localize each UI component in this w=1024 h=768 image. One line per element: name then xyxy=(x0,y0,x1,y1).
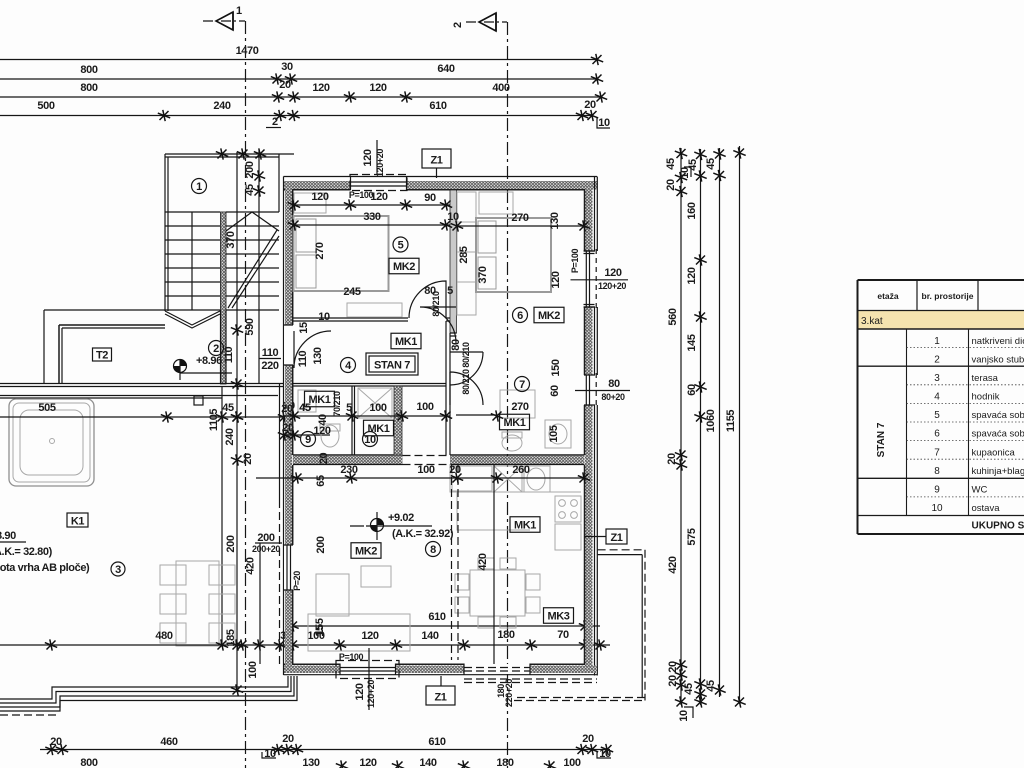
small square node xyxy=(194,396,203,405)
dashed interior lines living xyxy=(452,465,459,660)
bathroom fixtures xyxy=(500,390,571,451)
svg-text:640: 640 xyxy=(437,63,454,75)
K1 label xyxy=(67,513,88,528)
MK2 living xyxy=(351,543,381,559)
kitchen counter xyxy=(450,464,581,492)
svg-text:3: 3 xyxy=(934,373,940,384)
svg-text:45: 45 xyxy=(705,158,717,170)
bathroom dims xyxy=(456,401,529,415)
svg-text:20: 20 xyxy=(279,79,291,91)
room6 door arc xyxy=(420,307,456,343)
svg-text:45: 45 xyxy=(665,158,677,170)
svg-text:45: 45 xyxy=(683,683,695,695)
svg-text:spavaća soba: spavaća soba xyxy=(972,410,1024,421)
svg-text:80: 80 xyxy=(450,339,462,351)
room6 dims xyxy=(451,212,590,232)
svg-text:180: 180 xyxy=(497,629,514,641)
svg-text:120+20: 120+20 xyxy=(598,281,626,291)
svg-text:140: 140 xyxy=(419,757,436,768)
stair treads right run xyxy=(226,212,279,310)
svg-text:200+20: 200+20 xyxy=(252,544,280,554)
svg-text:40: 40 xyxy=(317,414,329,426)
svg-text:20: 20 xyxy=(582,733,594,745)
wc fixtures xyxy=(298,390,340,447)
dimension line 800/20/120/120/400 xyxy=(0,79,607,103)
svg-text:45: 45 xyxy=(705,680,717,692)
svg-text:800: 800 xyxy=(80,64,97,76)
svg-text:10: 10 xyxy=(447,211,459,223)
wardrobe room 6 xyxy=(457,192,476,315)
svg-text:120: 120 xyxy=(361,630,378,642)
svg-text:kuhinja+blag.: kuhinja+blag. xyxy=(972,466,1024,477)
svg-text:200: 200 xyxy=(244,161,256,178)
stair enclosure outline xyxy=(165,154,294,311)
svg-text:10: 10 xyxy=(599,748,611,760)
svg-text:WC: WC xyxy=(972,485,988,496)
svg-text:130: 130 xyxy=(302,757,319,768)
bathroom door arcs xyxy=(450,352,483,385)
MK3 dining xyxy=(544,608,574,624)
svg-text:P=100: P=100 xyxy=(349,190,374,200)
svg-text:6: 6 xyxy=(517,310,523,322)
svg-text:505: 505 xyxy=(38,402,55,414)
svg-text:480: 480 xyxy=(155,630,172,642)
room 4 / STAN 7 xyxy=(341,358,356,373)
room 7 bath xyxy=(515,377,530,392)
bath tub xyxy=(9,399,94,486)
svg-text:145: 145 xyxy=(686,334,698,351)
section line 2 dash-dot vertical xyxy=(507,22,509,768)
wc extra dim line xyxy=(278,429,330,440)
entry door arc xyxy=(294,331,331,368)
svg-text:220+20: 220+20 xyxy=(504,679,514,707)
svg-text:1: 1 xyxy=(196,181,202,193)
west wall xyxy=(285,181,292,671)
svg-text:420: 420 xyxy=(477,553,489,570)
svg-text:270: 270 xyxy=(511,212,528,224)
wall bedrooms/hallway xyxy=(293,318,450,321)
svg-text:A.K.= 32.80): A.K.= 32.80) xyxy=(0,546,53,558)
east window 2 xyxy=(584,375,595,405)
terrace north edge double line xyxy=(0,384,284,387)
MK1 wc xyxy=(305,391,335,407)
svg-text:9: 9 xyxy=(305,434,311,446)
table room names xyxy=(972,336,1024,514)
svg-text:220: 220 xyxy=(261,360,278,372)
svg-text:1: 1 xyxy=(934,336,940,347)
svg-text:65: 65 xyxy=(315,475,327,487)
svg-text:200: 200 xyxy=(225,535,237,552)
svg-text:3: 3 xyxy=(115,564,121,576)
svg-text:5: 5 xyxy=(398,240,404,252)
svg-text:120: 120 xyxy=(311,191,328,203)
Z1 bottom label xyxy=(426,676,455,705)
east window2 dims xyxy=(575,390,630,392)
svg-text:K1: K1 xyxy=(71,516,85,528)
svg-text:80: 80 xyxy=(608,378,620,390)
svg-text:+8.96: +8.96 xyxy=(196,355,222,367)
stair treads left run xyxy=(165,212,220,310)
svg-text:610: 610 xyxy=(429,100,446,112)
svg-text:20: 20 xyxy=(449,464,461,476)
svg-text:370: 370 xyxy=(225,231,237,248)
svg-text:10: 10 xyxy=(318,311,330,323)
svg-text:T2: T2 xyxy=(96,350,108,362)
svg-text:2: 2 xyxy=(934,355,940,366)
kitchen dims xyxy=(256,464,590,487)
svg-text:575: 575 xyxy=(686,528,698,545)
svg-text:20: 20 xyxy=(282,733,294,745)
svg-text:100: 100 xyxy=(563,757,580,768)
vdim line A x=681 xyxy=(665,148,693,722)
svg-text:100: 100 xyxy=(416,401,433,413)
wall bathroom top xyxy=(450,333,457,336)
svg-text:MK3: MK3 xyxy=(547,611,569,623)
closet room6 top xyxy=(479,192,513,214)
kitchen lower cabinet xyxy=(555,524,581,550)
svg-text:200: 200 xyxy=(257,532,274,544)
svg-text:1: 1 xyxy=(236,5,242,17)
svg-text:5: 5 xyxy=(934,410,940,421)
sofa xyxy=(308,566,410,651)
svg-text:20: 20 xyxy=(50,736,62,748)
door room5 arc xyxy=(409,281,446,318)
MK1 kitchen xyxy=(510,517,540,533)
bed room 5 xyxy=(294,216,389,291)
bottom window xyxy=(336,661,399,679)
svg-text:3.kat: 3.kat xyxy=(861,316,883,327)
svg-text:270: 270 xyxy=(511,401,528,413)
svg-text:MK2: MK2 xyxy=(393,261,415,273)
terrace vertical line xyxy=(221,386,223,645)
table body grid xyxy=(907,329,969,516)
svg-text:spavaća soba: spavaća soba xyxy=(972,429,1024,440)
stove xyxy=(555,496,581,522)
svg-text:110: 110 xyxy=(262,347,279,359)
svg-text:8.90: 8.90 xyxy=(0,530,16,542)
svg-text:8: 8 xyxy=(934,466,940,477)
east wall xyxy=(585,181,593,673)
svg-text:STAN 7: STAN 7 xyxy=(876,422,887,457)
Z1 top label xyxy=(422,149,451,178)
dimension line 800/30/640 xyxy=(0,61,603,85)
svg-text:120: 120 xyxy=(312,82,329,94)
svg-text:6: 6 xyxy=(934,429,940,440)
svg-text:20: 20 xyxy=(318,453,330,465)
svg-text:240: 240 xyxy=(213,100,230,112)
svg-text:130: 130 xyxy=(312,347,324,364)
svg-text:200: 200 xyxy=(315,536,327,553)
svg-text:20: 20 xyxy=(242,453,254,465)
level mark +9.02 xyxy=(350,512,454,540)
svg-text:420: 420 xyxy=(667,556,679,573)
svg-text:1060: 1060 xyxy=(705,409,717,432)
terrace inner line xyxy=(0,396,278,399)
svg-text:460: 460 xyxy=(160,736,177,748)
note 2 under top dims xyxy=(266,116,281,128)
svg-text:10: 10 xyxy=(678,710,690,722)
svg-text:7: 7 xyxy=(934,447,940,458)
dining table xyxy=(455,558,540,628)
vdim line B x=700.5 xyxy=(683,149,707,708)
svg-text:100: 100 xyxy=(247,661,259,678)
svg-text:natkriveni dio: natkriveni dio xyxy=(972,336,1024,347)
svg-text:kota vrha AB ploče): kota vrha AB ploče) xyxy=(0,562,90,574)
svg-text:20: 20 xyxy=(584,99,596,111)
room 6 labels xyxy=(513,308,528,323)
svg-text:MK1: MK1 xyxy=(395,336,417,348)
bottom wall xyxy=(284,666,597,674)
svg-text:30: 30 xyxy=(281,61,293,73)
svg-text:5: 5 xyxy=(346,402,352,414)
table 3.kat row xyxy=(858,328,1024,330)
svg-text:10: 10 xyxy=(598,117,610,129)
svg-text:20: 20 xyxy=(666,453,678,465)
T2 label xyxy=(93,348,112,362)
svg-text:260: 260 xyxy=(512,464,529,476)
MK1 hallway xyxy=(391,333,421,349)
east window1 dims xyxy=(571,279,629,281)
room 8 living xyxy=(426,542,441,557)
wc/storage walls xyxy=(293,384,446,387)
svg-text:370: 370 xyxy=(477,266,489,283)
level mark +8.96 xyxy=(174,341,236,381)
bed room 6 xyxy=(476,218,551,292)
svg-text:10: 10 xyxy=(931,503,943,514)
svg-text:120: 120 xyxy=(313,425,330,437)
svg-text:80+20: 80+20 xyxy=(601,392,625,402)
svg-text:590: 590 xyxy=(244,318,256,335)
svg-text:20: 20 xyxy=(667,661,679,673)
overhang line west xyxy=(279,384,281,500)
svg-text:20: 20 xyxy=(282,422,294,434)
svg-text:100: 100 xyxy=(369,402,386,414)
table row numbers xyxy=(931,336,943,514)
svg-text:45: 45 xyxy=(687,159,699,171)
section line 1 dash-dot vertical xyxy=(245,21,247,768)
svg-text:5: 5 xyxy=(447,285,453,297)
room5 top dims xyxy=(288,191,452,211)
svg-text:MK1: MK1 xyxy=(308,394,330,406)
dim line 610 (above) xyxy=(286,611,600,632)
stair mid wall xyxy=(221,212,227,384)
vdim line C x=719.5 xyxy=(705,148,726,697)
svg-text:10: 10 xyxy=(264,748,276,760)
dimension line 500/240/610/20/10 xyxy=(0,99,610,129)
svg-text:15: 15 xyxy=(298,322,310,334)
bottom door opening xyxy=(464,664,530,676)
svg-text:STAN 7: STAN 7 xyxy=(374,360,410,372)
terrace table and chairs xyxy=(160,561,235,646)
dimension line 1470 xyxy=(0,45,603,65)
bottom dim line 1 xyxy=(40,733,613,760)
stair circled 1 xyxy=(192,179,207,194)
svg-text:kupaonica: kupaonica xyxy=(972,447,1016,458)
svg-text:240: 240 xyxy=(224,428,236,445)
svg-text:105: 105 xyxy=(548,425,560,442)
Z1 east label xyxy=(585,529,628,544)
svg-text:1105: 1105 xyxy=(208,409,220,432)
svg-text:1470: 1470 xyxy=(236,45,259,57)
MK1 bath xyxy=(500,414,530,430)
interior wall hallway/living hatched xyxy=(293,456,403,464)
svg-text:330: 330 xyxy=(363,211,380,223)
svg-text:MK1: MK1 xyxy=(514,520,536,532)
svg-text:2: 2 xyxy=(213,343,219,355)
svg-text:P=100: P=100 xyxy=(570,248,580,273)
room 10 storage xyxy=(363,432,378,447)
svg-text:+9.02: +9.02 xyxy=(388,512,414,524)
svg-text:180: 180 xyxy=(496,757,513,768)
wall hallway vertical xyxy=(446,321,450,455)
dim line 480 (terrace south) xyxy=(0,625,610,651)
terrace steps bottom-left xyxy=(0,676,297,715)
partition rooms 5/6 xyxy=(450,190,457,333)
svg-text:br. prostorije: br. prostorije xyxy=(922,291,974,301)
room 9 wc xyxy=(301,432,316,447)
svg-text:120: 120 xyxy=(686,267,698,284)
svg-text:100: 100 xyxy=(417,464,434,476)
svg-text:MK1: MK1 xyxy=(367,423,389,435)
svg-text:8: 8 xyxy=(430,544,436,556)
east window 1 xyxy=(584,251,596,307)
svg-text:P=100: P=100 xyxy=(339,652,364,662)
svg-text:70/210: 70/210 xyxy=(332,391,342,417)
svg-text:420: 420 xyxy=(245,557,257,574)
svg-text:80/210: 80/210 xyxy=(461,369,471,395)
svg-text:7: 7 xyxy=(519,379,525,391)
svg-text:MK2: MK2 xyxy=(355,546,377,558)
svg-text:etaža: etaža xyxy=(877,291,899,301)
svg-text:120+20: 120+20 xyxy=(366,680,376,708)
svg-text:80/210: 80/210 xyxy=(431,291,441,317)
top window xyxy=(350,175,407,191)
closet room5 bottom xyxy=(347,303,402,317)
svg-text:20: 20 xyxy=(667,675,679,687)
top wall xyxy=(284,181,597,190)
svg-text:4: 4 xyxy=(934,392,940,403)
svg-text:terasa: terasa xyxy=(972,373,999,384)
svg-text:160: 160 xyxy=(686,202,698,219)
svg-text:Z1: Z1 xyxy=(430,155,442,167)
west window xyxy=(284,545,303,591)
svg-text:400: 400 xyxy=(492,82,509,94)
svg-text:80/210: 80/210 xyxy=(461,342,471,368)
svg-text:20: 20 xyxy=(281,403,293,415)
svg-text:hodnik: hodnik xyxy=(972,392,1000,403)
svg-text:2: 2 xyxy=(452,22,464,28)
svg-text:230: 230 xyxy=(340,464,357,476)
svg-text:140: 140 xyxy=(421,630,438,642)
svg-text:(A.K.= 32.92): (A.K.= 32.92) xyxy=(392,528,454,540)
svg-text:60: 60 xyxy=(549,385,561,397)
room 5 labels xyxy=(393,237,408,252)
hallway dims xyxy=(281,401,503,422)
svg-text:MK1: MK1 xyxy=(503,417,525,429)
svg-text:155: 155 xyxy=(314,618,326,635)
svg-text:110: 110 xyxy=(223,346,235,363)
table 3.kat highlighted row xyxy=(858,311,1024,330)
svg-text:120: 120 xyxy=(362,149,374,166)
svg-text:610: 610 xyxy=(428,736,445,748)
svg-text:500: 500 xyxy=(37,100,54,112)
svg-text:245: 245 xyxy=(343,286,360,298)
svg-text:ostava: ostava xyxy=(972,503,1001,514)
svg-text:130: 130 xyxy=(549,212,561,229)
nightstand room5 xyxy=(294,193,326,213)
svg-text:800: 800 xyxy=(80,757,97,768)
svg-text:60: 60 xyxy=(686,384,698,396)
svg-text:150: 150 xyxy=(550,359,562,376)
table header cells xyxy=(858,280,1024,311)
svg-text:560: 560 xyxy=(667,308,679,325)
svg-text:UKUPNO ST: UKUPNO ST xyxy=(972,521,1024,532)
svg-text:9: 9 xyxy=(934,485,940,496)
svg-text:Z1: Z1 xyxy=(610,532,622,544)
svg-text:800: 800 xyxy=(80,82,97,94)
svg-text:20: 20 xyxy=(665,179,677,191)
svg-text:2: 2 xyxy=(272,116,278,128)
svg-text:120: 120 xyxy=(369,82,386,94)
terrace vertical dim line xyxy=(208,152,259,696)
svg-text:1155: 1155 xyxy=(725,410,737,433)
svg-text:270: 270 xyxy=(314,242,326,259)
svg-text:120: 120 xyxy=(354,683,366,700)
svg-text:110: 110 xyxy=(297,350,309,367)
svg-text:vanjsko stubište: vanjsko stubište xyxy=(972,355,1024,366)
stair lower chevron landing xyxy=(165,310,226,384)
svg-text:45: 45 xyxy=(222,402,234,414)
bottom dim line 2 (cut at page edge) xyxy=(80,757,580,768)
west door opening xyxy=(284,325,294,365)
dim line 505 xyxy=(0,400,311,423)
section marker 1 xyxy=(203,5,245,30)
svg-text:45: 45 xyxy=(299,402,311,414)
svg-text:285: 285 xyxy=(458,246,470,263)
storage washer xyxy=(358,388,392,418)
MK1 storage xyxy=(364,420,394,436)
svg-text:90: 90 xyxy=(424,192,436,204)
svg-text:120: 120 xyxy=(359,757,376,768)
svg-text:120: 120 xyxy=(550,271,562,288)
svg-text:P=20: P=20 xyxy=(292,571,302,591)
table outer border xyxy=(858,280,1024,534)
west window leader xyxy=(255,543,282,664)
svg-text:185: 185 xyxy=(225,629,237,646)
svg-text:70: 70 xyxy=(557,629,569,641)
svg-text:120: 120 xyxy=(604,267,621,279)
vdim line D x=739.5 xyxy=(725,146,746,708)
section marker 2 xyxy=(452,13,507,31)
svg-text:MK2: MK2 xyxy=(538,310,560,322)
svg-text:610: 610 xyxy=(428,611,445,623)
svg-text:Z1: Z1 xyxy=(434,692,446,704)
